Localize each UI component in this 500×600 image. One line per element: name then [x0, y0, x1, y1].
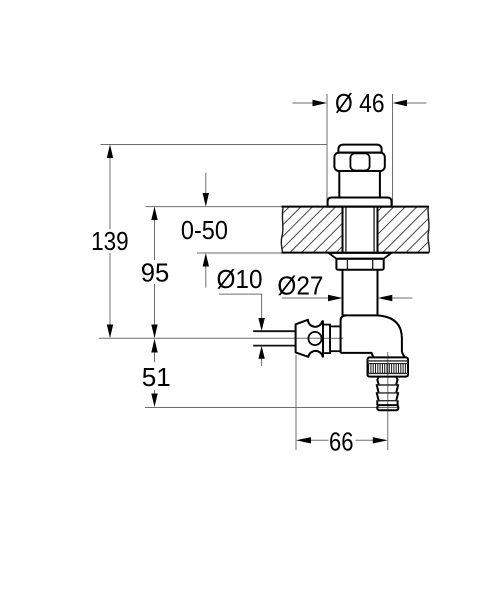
extension line Ø46 left (x=327): [326, 94, 328, 205]
mounting hex nut: [336, 259, 383, 270]
capstan handle outline: [296, 320, 323, 357]
hose barb end cap: [377, 405, 398, 410]
extension line deck bottom (left of deck, y=253): [197, 252, 283, 254]
dimension line 66 with arrows: [296, 437, 388, 443]
hose barb left profile: [377, 377, 379, 406]
outlet collar outline: [368, 357, 409, 376]
deck hole / threaded shank outer lines: [342, 207, 344, 253]
svg-text:51: 51: [142, 362, 171, 392]
base flange (escutcheon) on deck: [328, 198, 392, 207]
dimension line 95 with arrows: [151, 207, 157, 338]
svg-text:139: 139: [91, 226, 129, 256]
hose barb ridge lines: [377, 384, 398, 386]
body underside: [341, 353, 374, 358]
svg-text:Ø27: Ø27: [277, 270, 323, 300]
svg-text:Ø10: Ø10: [217, 264, 263, 294]
extension line 66 left (knob face, x=296): [295, 355, 297, 450]
svg-text:0-50: 0-50: [181, 215, 228, 245]
Ø10 side stub top edge: [253, 330, 295, 332]
deck slab top edge: [282, 206, 430, 208]
handle hub circle: [308, 332, 321, 345]
body shoulder line: [343, 314, 378, 316]
dimension line 139 with arrows: [107, 145, 113, 339]
deck right break edge (wavy): [428, 207, 429, 253]
extension line deck top (left of deck, y=206.6): [146, 206, 284, 208]
knurling stripes: [369, 364, 406, 374]
svg-text:95: 95: [141, 257, 170, 287]
dimension Ø46 left arrow: [292, 100, 327, 106]
svg-text:66: 66: [329, 426, 354, 456]
body right flare to collar: [402, 352, 405, 357]
hex cap centre facet: [350, 153, 369, 170]
dimension Ø27 right arrow: [378, 295, 413, 301]
deck hatching: [219, 206, 487, 254]
hose barb right profile: [396, 377, 398, 406]
collar upper line: [368, 360, 409, 362]
extension line 66 right / outlet centerline (x=387.8): [387, 352, 389, 450]
collar knurl band bottom line: [368, 372, 409, 374]
extension line bottom of 51 (y=407.5): [145, 407, 398, 409]
collar knurl band top line: [368, 363, 409, 365]
deck left break edge (wavy): [281, 207, 283, 253]
dimension Ø27 left arrow: [282, 295, 343, 301]
body left edge with rounded shoulder: [341, 315, 346, 353]
dimension line 51 with arrows: [151, 339, 157, 407]
dimension Ø46 right arrow: [393, 100, 427, 106]
valve inlet neck: [330, 326, 341, 351]
supply stem right edge: [377, 270, 379, 316]
supply stem left edge: [342, 270, 344, 316]
hex nut facet lines: [346, 259, 348, 270]
svg-text:Ø 46: Ø 46: [335, 88, 385, 118]
chamfered washer under deck: [329, 253, 392, 259]
extension line Ø46 right (x=392.5): [392, 94, 394, 205]
handle collar ring: [323, 325, 330, 354]
threaded shank inner thread lines: [345, 207, 347, 253]
bonnet below cap: [338, 171, 340, 198]
body right edge curve into elbow: [377, 315, 402, 352]
axis / reference line of side outlet (y=338.2): [99, 337, 343, 339]
dimension 0-50 arrows (deck thickness): [203, 173, 209, 288]
dimension Ø10 leader and arrows: [219, 294, 265, 366]
Ø10 side stub bottom edge: [253, 345, 295, 347]
top dome of headwork cap: [338, 145, 381, 153]
hex cap of headwork: [334, 153, 384, 171]
extension line top of 139 (y=144.5): [101, 144, 328, 146]
deck slab bottom edge: [282, 252, 430, 254]
